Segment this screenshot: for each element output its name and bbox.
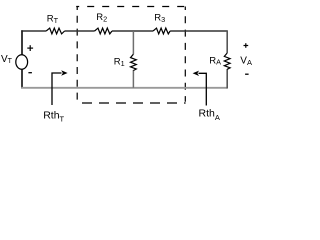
svg-text:RA: RA xyxy=(209,55,221,66)
wire R1 branch xyxy=(132,31,134,88)
wire top xyxy=(21,30,227,32)
svg-text:VA: VA xyxy=(240,56,252,68)
svg-text:R2: R2 xyxy=(96,12,107,24)
svg-text:RthA: RthA xyxy=(199,108,220,122)
svg-text:RthT: RthT xyxy=(43,109,64,123)
resistor R2 xyxy=(95,28,112,34)
VA minus sign xyxy=(245,73,249,75)
VA plus sign xyxy=(244,43,249,48)
resistor RA (vertical) xyxy=(224,53,230,69)
wire bottom xyxy=(21,87,227,89)
svg-text:R1: R1 xyxy=(114,56,125,68)
svg-text:VT: VT xyxy=(1,54,13,65)
resistor R3 xyxy=(153,28,170,34)
resistor RT xyxy=(46,28,64,34)
VT minus sign xyxy=(28,72,32,74)
voltage source VT xyxy=(16,55,28,69)
svg-text:R3: R3 xyxy=(154,13,165,25)
RthT arrow xyxy=(52,73,62,105)
wire RA branch xyxy=(226,30,228,88)
resistor R1 (vertical) xyxy=(131,54,137,70)
svg-text:RT: RT xyxy=(47,14,59,25)
RthA arrow xyxy=(199,73,207,105)
VT plus sign xyxy=(27,45,33,51)
dashed Thevenin boundary box xyxy=(76,7,185,104)
wire left branch xyxy=(21,30,23,88)
